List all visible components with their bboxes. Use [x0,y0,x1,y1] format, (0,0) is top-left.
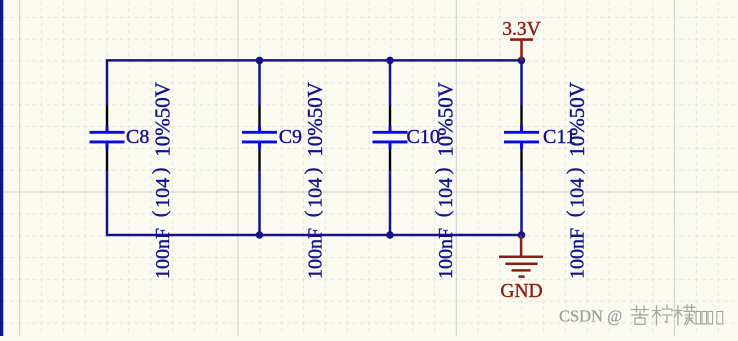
junction: C11 at 3.3V bus [518,57,526,65]
svg-text:C9: C9 [279,126,302,148]
junction: C10 at 3.3V bus [386,57,394,65]
svg-text:GND: GND [500,281,542,302]
wire: C11 top lead to 3.3V bus [520,60,523,105]
wire: C9 top lead to 3.3V bus [258,60,261,105]
svg-text:C8: C8 [126,126,149,148]
junction: C11 at GND bus [518,231,526,239]
junction: C9 at 3.3V bus [256,57,264,65]
svg-text:CSDN @: CSDN @ [559,307,622,326]
svg-text:3.3V: 3.3V [502,19,540,40]
junction: C9 at GND bus [256,231,264,239]
svg-text:10%50V: 10%50V [150,82,174,157]
wire: GND bottom bus from C8 to ground symbol [107,170,522,235]
svg-text:10%50V: 10%50V [565,82,589,157]
capacitor C8 [90,105,125,170]
wire: C11 bottom lead to GND bus [520,170,523,235]
capacitor C10 [373,105,408,170]
capacitor C11 [504,105,539,170]
wire: C9 bottom lead to GND bus [258,170,261,235]
svg-text:10%50V: 10%50V [303,82,327,157]
junction: C10 at GND bus [386,231,394,239]
wire: 3.3V top bus from C8 to power port [107,60,522,105]
svg-text:10%50V: 10%50V [433,82,457,157]
wire: C10 top lead to 3.3V bus [389,60,392,105]
ground GND symbol [499,235,543,277]
capacitor C9 [242,105,277,170]
wire: C10 bottom lead to GND bus [389,170,392,235]
power port 3.3V [510,40,533,61]
